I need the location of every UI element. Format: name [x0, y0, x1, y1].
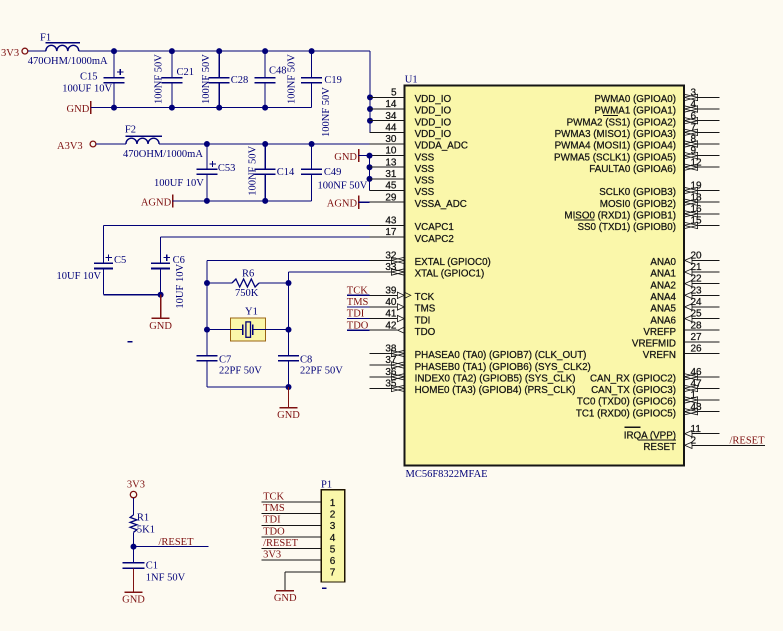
pin arrow input pin 20: [685, 257, 692, 263]
svg-text:ANA0: ANA0: [650, 257, 676, 268]
svg-text:48: 48: [691, 402, 703, 413]
wire AGND to pin 29: [359, 201, 370, 203]
pin arrow bidirectional pin 8: [684, 141, 697, 147]
svg-text:100NF 50V: 100NF 50V: [287, 54, 298, 104]
pin arrow TMS (input): [397, 304, 404, 310]
ground flag GND (P1): [276, 590, 294, 592]
svg-text:4: 4: [691, 99, 697, 110]
svg-text:3V3: 3V3: [1, 48, 19, 59]
pin arrow TCK (input, double): [397, 292, 404, 298]
wire R1 to node: [133, 532, 135, 546]
svg-text:EXTAL (GPIOC0): EXTAL (GPIOC0): [415, 257, 491, 268]
node junction C6 bottom: [158, 292, 164, 298]
wire EXTAL pin 32: [207, 259, 370, 261]
svg-text:VCAPC2: VCAPC2: [415, 234, 454, 245]
pin arrow input pin 24: [685, 304, 692, 310]
capacitor C1: [123, 562, 145, 564]
wire A3V3 rail to pin 30: [159, 143, 369, 145]
svg-text:100UF 10V: 100UF 10V: [154, 178, 204, 189]
wire VDD_IO pin stub row 2: [370, 120, 405, 122]
node junctions AGND rail: [204, 198, 210, 204]
pin arrow TDI (input): [397, 315, 404, 321]
pin arrow input pin 2: [685, 442, 692, 448]
ground flag GND (top filter): [90, 101, 92, 114]
svg-text:7: 7: [691, 122, 697, 133]
svg-text:1: 1: [330, 498, 336, 509]
svg-text:12: 12: [691, 157, 703, 168]
node junctions VDD bus: [367, 94, 373, 100]
svg-text:5: 5: [330, 545, 336, 556]
wire XTAL pin 33: [289, 271, 370, 273]
svg-text:C48: C48: [269, 65, 287, 76]
svg-text:470OHM/1000mA: 470OHM/1000mA: [123, 149, 203, 160]
capacitor C48: [264, 51, 266, 78]
svg-text:23: 23: [691, 285, 703, 296]
wire pin 46 stub: [697, 376, 719, 378]
svg-text:C19: C19: [324, 75, 342, 86]
svg-text:ANA2: ANA2: [650, 280, 676, 291]
pin 32 stub: [370, 259, 392, 261]
pin arrow bidirectional pin 18: [684, 199, 697, 205]
svg-text:46: 46: [691, 367, 703, 378]
svg-text:30: 30: [385, 134, 397, 145]
svg-text:VDD_IO: VDD_IO: [415, 106, 452, 117]
svg-text:5K1: 5K1: [137, 525, 155, 536]
svg-text:PWMA4 (MOSI1) (GPIOA4): PWMA4 (MOSI1) (GPIOA4): [555, 141, 676, 152]
svg-text:PWMA0 (GPIOA0): PWMA0 (GPIOA0): [594, 94, 676, 105]
wire VDD_IO pin stub row 3: [370, 131, 405, 133]
wire pin 25 stub: [692, 318, 719, 320]
svg-text:32: 32: [385, 251, 397, 262]
svg-text:3V3: 3V3: [127, 479, 145, 490]
svg-text:100UF 10V: 100UF 10V: [62, 83, 112, 94]
svg-text:37: 37: [385, 355, 397, 366]
pin 33 stub: [370, 271, 392, 273]
capacitor C8: [288, 330, 290, 356]
wire Y1 row: [207, 329, 230, 331]
svg-text:3: 3: [691, 88, 697, 99]
pin 1 wire P1: [262, 501, 322, 503]
svg-text:R6: R6: [242, 268, 254, 279]
svg-text:ANA4: ANA4: [650, 292, 676, 303]
pin arrow input pin 11: [685, 431, 692, 437]
svg-text:MOSI0 (GPIOB2): MOSI0 (GPIOB2): [600, 199, 676, 210]
wire pin 7 stub: [697, 131, 719, 133]
wire pin 48 stub: [697, 411, 719, 413]
wire pin 24 stub: [692, 306, 719, 308]
svg-text:7: 7: [330, 568, 336, 579]
wire crystal bottom rail: [207, 386, 289, 388]
svg-text:C53: C53: [218, 163, 236, 174]
svg-text:U1: U1: [405, 74, 418, 85]
svg-text:20: 20: [691, 251, 703, 262]
svg-text:14: 14: [385, 99, 397, 110]
svg-text:44: 44: [385, 122, 397, 133]
svg-text:10: 10: [385, 146, 397, 157]
svg-text:GND: GND: [334, 152, 357, 163]
svg-text:TDI: TDI: [263, 515, 281, 526]
svg-text:C49: C49: [324, 167, 342, 178]
svg-text:TDO: TDO: [415, 327, 436, 338]
svg-text:10UF 10V: 10UF 10V: [175, 264, 186, 309]
wire pin 28 stub: [684, 329, 719, 331]
capacitor C49: [311, 144, 313, 169]
resistor R1: [130, 515, 137, 532]
svg-text:MC56F8322MFAE: MC56F8322MFAE: [406, 469, 488, 480]
svg-text:24: 24: [691, 297, 703, 308]
svg-text:34: 34: [385, 111, 397, 122]
svg-text:VREFP: VREFP: [643, 327, 676, 338]
pin 17 stub: [370, 236, 405, 238]
node junctions VSS bus: [367, 164, 373, 170]
svg-text:SCLK0 (GPIOB3): SCLK0 (GPIOB3): [599, 187, 676, 198]
svg-text:GND: GND: [67, 104, 90, 115]
svg-text:F1: F1: [40, 32, 51, 43]
pin stub TMS: [370, 306, 398, 308]
svg-text:22PF 50V: 22PF 50V: [219, 365, 262, 376]
wire pin 3 stub: [697, 96, 719, 98]
wire pin 26 stub: [684, 353, 719, 355]
svg-text:470OHM/1000mA: 470OHM/1000mA: [28, 56, 108, 67]
pin arrow bidirectional pin 48: [684, 409, 697, 415]
pin stub TDI: [370, 318, 398, 320]
svg-text:TCK: TCK: [415, 292, 435, 303]
pin arrow bidirectional EXTAL: [391, 257, 404, 263]
overbar on IRQA text: [625, 426, 641, 428]
ground flag AGND (left): [172, 194, 174, 207]
svg-text:/RESET: /RESET: [730, 435, 766, 446]
wire pin 23 stub: [692, 294, 719, 296]
capacitor C53: [206, 144, 208, 169]
svg-text:GND: GND: [274, 593, 297, 604]
svg-text:750K: 750K: [235, 288, 259, 299]
wire node to C1: [133, 547, 135, 563]
svg-text:C1: C1: [146, 560, 158, 571]
wire pin 16 stub: [697, 213, 719, 215]
svg-text:XTAL (GPIOC1): XTAL (GPIOC1): [415, 269, 485, 280]
node junction VSS bus top: [367, 153, 373, 159]
svg-text:CAN_RX (GPIOC2): CAN_RX (GPIOC2): [590, 374, 676, 385]
svg-text:18: 18: [691, 192, 703, 203]
underline on MISO0 text: [574, 219, 595, 221]
svg-text:RESET: RESET: [643, 442, 676, 453]
svg-text:VCAPC1: VCAPC1: [415, 222, 454, 233]
svg-text:15: 15: [691, 216, 703, 227]
pin arrow bidirectional pin 47: [684, 385, 697, 391]
svg-text:100NF 50V: 100NF 50V: [201, 54, 212, 104]
pin arrow bidirectional pin 9: [684, 152, 697, 158]
svg-text:41: 41: [385, 309, 397, 320]
capacitor C28: [218, 51, 220, 78]
wire pin 19 stub: [697, 190, 719, 192]
underline on PWMA1 text: [603, 114, 618, 116]
svg-text:HOME0 (TA3) (GPIOB4) (PRS_CLK): HOME0 (TA3) (GPIOB4) (PRS_CLK): [415, 385, 576, 396]
wire /RESET stub: [134, 546, 209, 548]
wire timer pin stub row 23: [370, 364, 392, 366]
wire pin 20 stub: [692, 259, 719, 261]
svg-text:/RESET: /RESET: [263, 538, 299, 549]
svg-text:FAULTA0 (GPIOA6): FAULTA0 (GPIOA6): [589, 164, 676, 175]
svg-text:VREFMID: VREFMID: [632, 339, 676, 350]
svg-text:29: 29: [385, 192, 397, 203]
pin 30 stub: [370, 143, 405, 145]
pin arrow bidirectional row 24: [391, 374, 404, 380]
svg-text:TMS: TMS: [415, 304, 436, 315]
svg-text:PHASEA0 (TA0) (GPIOB7) (CLK_OU: PHASEA0 (TA0) (GPIOB7) (CLK_OUT): [415, 350, 587, 361]
svg-text:PWMA5 (SCLK1) (GPIOA5): PWMA5 (SCLK1) (GPIOA5): [554, 152, 676, 163]
svg-text:4: 4: [330, 533, 336, 544]
wire TMS to IC: [347, 306, 370, 308]
pin 3 wire P1: [262, 524, 322, 526]
svg-text:VDDA_ADC: VDDA_ADC: [415, 141, 468, 152]
pin arrow input pin 21: [685, 269, 692, 275]
svg-text:47: 47: [691, 379, 703, 390]
svg-text:45: 45: [385, 181, 397, 192]
svg-text:ANA1: ANA1: [650, 269, 676, 280]
svg-text:31: 31: [385, 169, 397, 180]
svg-text:INDEX0 (TA2) (GPIOB5) (SYS_CLK: INDEX0 (TA2) (GPIOB5) (SYS_CLK): [415, 374, 576, 385]
svg-text:C7: C7: [219, 354, 231, 365]
pin arrow bidirectional pin 19: [684, 187, 697, 193]
ground flag AGND (VSSA pin): [358, 196, 360, 209]
wire pin 6 stub: [697, 120, 719, 122]
svg-text:8: 8: [691, 134, 697, 145]
svg-text:SS0 (TXD1) (GPIOB0): SS0 (TXD1) (GPIOB0): [577, 222, 676, 233]
pin arrow bidirectional row 22: [391, 350, 404, 356]
svg-text:28: 28: [691, 320, 703, 331]
wire pin 8 stub: [697, 143, 719, 145]
svg-text:PWMA2 (SS1) (GPIOA2): PWMA2 (SS1) (GPIOA2): [567, 117, 676, 128]
wire 3V3 to R1: [133, 498, 135, 515]
wire pin 15 stub: [697, 224, 719, 226]
svg-text:CAN_TX (GPIOC3): CAN_TX (GPIOC3): [591, 385, 676, 396]
wire VSS bus vertical: [369, 156, 371, 191]
wire VSS pin stub row 8: [370, 190, 405, 192]
svg-text:3V3: 3V3: [263, 550, 281, 561]
svg-text:TC0 (TXD0) (GPIOC6): TC0 (TXD0) (GPIOC6): [577, 397, 676, 408]
svg-text:2: 2: [330, 510, 336, 521]
svg-text:VDD_IO: VDD_IO: [415, 94, 452, 105]
capacitor C19: [311, 51, 313, 78]
pin arrow bidirectional pin 46: [684, 374, 697, 380]
wire pin 4 stub: [697, 108, 719, 110]
capacitor C15: [113, 51, 115, 78]
pin arrow bidirectional pin 4: [684, 106, 697, 112]
svg-text:C15: C15: [80, 72, 98, 83]
wire pin 18 stub: [697, 201, 719, 203]
pin 4 wire P1: [262, 536, 322, 538]
wire timer pin stub row 25: [370, 387, 392, 389]
svg-text:GND: GND: [122, 595, 145, 606]
wire pin 11 stub: [692, 433, 719, 435]
wire VDD_IO pin stub row 0: [370, 96, 405, 98]
svg-text:40: 40: [385, 297, 397, 308]
svg-text:TDI: TDI: [415, 315, 431, 326]
node junction bottom rail: [286, 384, 292, 390]
wire VCAPC2 pin 17: [161, 236, 370, 238]
pin arrow bidirectional XTAL: [391, 269, 404, 275]
svg-text:22PF 50V: 22PF 50V: [300, 365, 343, 376]
wire left crystal bus: [206, 260, 208, 355]
capacitor C7: [206, 330, 208, 356]
svg-text:38: 38: [385, 344, 397, 355]
fuse/bead F1: [46, 45, 79, 51]
capacitor C14: [264, 144, 266, 169]
svg-text:P1: P1: [321, 480, 332, 491]
wire timer pin stub row 24: [370, 376, 392, 378]
svg-text:6: 6: [330, 556, 336, 567]
wire 3V3 to F1: [28, 50, 46, 52]
wire timer pin stub row 22: [370, 353, 392, 355]
svg-text:43: 43: [385, 216, 397, 227]
svg-text:VSS: VSS: [415, 187, 435, 198]
svg-text:ANA5: ANA5: [650, 304, 676, 315]
svg-text:GND: GND: [277, 410, 300, 421]
wire P1 pin7 to ground: [284, 572, 286, 591]
svg-text:6: 6: [691, 111, 697, 122]
wire GND to pin 10: [359, 155, 370, 157]
pin 29 stub: [370, 201, 405, 203]
pin arrow bidirectional pin 12: [684, 164, 697, 170]
svg-text:TCK: TCK: [263, 491, 284, 502]
wire VCAPC1 pin 43: [104, 224, 370, 226]
wire VSS pin stub row 7: [370, 178, 405, 180]
svg-text:35: 35: [385, 379, 397, 390]
wire pin 27 stub: [684, 341, 719, 343]
pin arrow bidirectional pin 15: [684, 222, 697, 228]
pin arrow bidirectional row 23: [391, 362, 404, 368]
wire right crystal bus upper: [288, 272, 290, 356]
pin stub TDO: [370, 329, 398, 331]
node junctions GND rail: [111, 105, 117, 111]
capacitor C6: [160, 237, 162, 263]
svg-text:A3V3: A3V3: [57, 141, 83, 152]
svg-text:GND: GND: [149, 321, 172, 332]
svg-text:1NF 50V: 1NF 50V: [146, 573, 186, 584]
svg-text:25: 25: [691, 309, 703, 320]
svg-text:26: 26: [691, 344, 703, 355]
svg-text:17: 17: [385, 227, 397, 238]
pin stub TCK: [370, 294, 398, 296]
ground flag GND (VSS pins): [358, 149, 360, 162]
crystal Y1: [230, 318, 265, 341]
svg-text:AGND: AGND: [141, 197, 172, 208]
pin arrow bidirectional pin 7: [684, 129, 697, 135]
svg-text:VSS: VSS: [415, 152, 435, 163]
svg-text:C8: C8: [300, 354, 312, 365]
svg-text:42: 42: [385, 320, 397, 331]
svg-text:/RESET: /RESET: [159, 537, 195, 548]
svg-text:C28: C28: [231, 75, 249, 86]
node junctions Y1 row: [204, 327, 210, 333]
stray minus mark: [128, 341, 133, 343]
svg-text:C14: C14: [277, 167, 295, 178]
wire VDD bus vertical: [369, 51, 371, 132]
wire VDD_IO pin stub row 1: [370, 108, 405, 110]
svg-text:10UF 10V: 10UF 10V: [57, 271, 102, 282]
svg-text:9: 9: [691, 146, 697, 157]
wire pin 22 stub: [692, 283, 719, 285]
pin 43 stub: [370, 224, 405, 226]
pin arrow bidirectional pin 3: [684, 94, 697, 100]
svg-text:16: 16: [691, 204, 703, 215]
svg-text:VSS: VSS: [415, 164, 435, 175]
pin arrow input pin 25: [685, 315, 692, 321]
node junctions A3V3 rail: [204, 141, 210, 147]
pin 5 wire P1: [262, 548, 322, 550]
svg-text:AGND: AGND: [327, 199, 358, 210]
svg-text:1: 1: [691, 390, 697, 401]
pin arrow bidirectional pin 16: [684, 211, 697, 217]
svg-text:2: 2: [691, 435, 697, 446]
svg-text:C5: C5: [114, 255, 126, 266]
capacitor C21: [171, 51, 173, 78]
pin arrow bidirectional row 25: [391, 385, 404, 391]
svg-text:TDO: TDO: [263, 526, 285, 537]
svg-text:TMS: TMS: [263, 503, 285, 514]
svg-text:36: 36: [385, 367, 397, 378]
svg-text:100NF 50V: 100NF 50V: [154, 54, 165, 104]
op-amp U1 body (MCU): [405, 86, 685, 466]
svg-text:C21: C21: [177, 67, 195, 78]
node junctions R6 row: [204, 280, 210, 286]
underline on IRQA (VPP) text: [639, 439, 676, 441]
svg-text:ANA6: ANA6: [650, 315, 676, 326]
wire TDO to IC: [347, 329, 370, 331]
svg-text:TC1 (RXD0) (GPIOC5): TC1 (RXD0) (GPIOC5): [576, 408, 676, 419]
wire pin 9 stub: [697, 155, 719, 157]
wire pin 12 stub: [697, 166, 719, 168]
ground flag GND (below C8): [288, 387, 290, 408]
svg-text:VREFN: VREFN: [643, 350, 676, 361]
pin arrow TDO (output): [398, 327, 405, 333]
svg-text:39: 39: [385, 285, 397, 296]
wire pin 47 stub: [697, 387, 719, 389]
wire GND rail: [91, 107, 312, 109]
svg-text:VDD_IO: VDD_IO: [415, 117, 452, 128]
pin arrow bidirectional pin 1: [684, 397, 697, 403]
pin arrow input pin 22: [685, 280, 692, 286]
svg-text:100NF 50V: 100NF 50V: [247, 146, 258, 196]
svg-text:5: 5: [391, 88, 397, 99]
connector P1 body: [321, 490, 345, 582]
node junction /RESET: [131, 544, 137, 550]
svg-text:100NF 50V: 100NF 50V: [318, 181, 368, 192]
wire 3V3 rail: [79, 50, 370, 52]
stray minus mark P1: [322, 587, 327, 589]
svg-text:11: 11: [691, 424, 702, 435]
svg-text:22: 22: [691, 274, 703, 285]
svg-text:19: 19: [691, 181, 703, 192]
svg-text:13: 13: [385, 157, 397, 168]
pin 6 wire P1: [262, 559, 322, 561]
svg-text:33: 33: [385, 262, 397, 273]
pin 2 wire P1: [262, 513, 322, 515]
svg-text:VSS: VSS: [415, 176, 435, 187]
svg-text:F2: F2: [125, 125, 136, 136]
ground flag GND (reset): [133, 568, 135, 592]
pin arrow input pin 23: [685, 292, 692, 298]
pin 7 wire P1: [285, 571, 321, 573]
svg-text:3: 3: [330, 521, 336, 532]
resistor R6: [207, 282, 232, 284]
svg-text:27: 27: [691, 332, 703, 343]
wire pin 2 stub: [692, 444, 765, 446]
svg-text:VSSA_ADC: VSSA_ADC: [415, 199, 467, 210]
svg-text:100NF 50V: 100NF 50V: [321, 87, 332, 137]
wire A3V3 to F2: [96, 143, 126, 145]
wire pin 1 stub: [697, 399, 719, 401]
